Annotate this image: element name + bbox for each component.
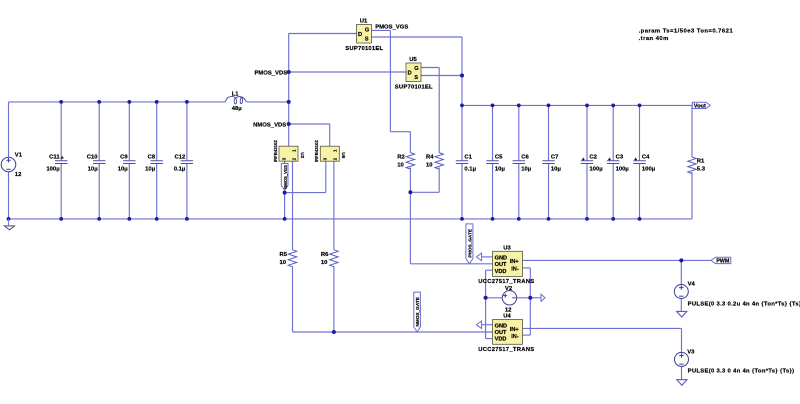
svg-text:R4: R4 [426, 154, 434, 160]
svg-text:C3: C3 [616, 155, 624, 161]
svg-text:+: + [634, 157, 637, 163]
node junction R2-R4 link [408, 190, 412, 194]
node junction IN- link [528, 296, 532, 300]
wire U1 drain lead [289, 33, 357, 35]
wire U1 source lead [372, 36, 463, 38]
node junctions on switch node x288.7 [287, 70, 291, 126]
voltage source V2 [502, 291, 516, 305]
transistor U2 body (IRFB4310Z block) [279, 146, 298, 161]
svg-text:IN+: IN+ [510, 327, 520, 333]
svg-text:100µ: 100µ [46, 166, 60, 172]
wire U4 IN+ to V3 [523, 328, 682, 352]
svg-text:IRFB4310Z: IRFB4310Z [314, 140, 319, 163]
svg-text:10µ: 10µ [118, 166, 129, 172]
svg-text:.param Ts=1/50e3 Ton=0.7621: .param Ts=1/50e3 Ton=0.7621 [639, 29, 734, 35]
svg-text:C9: C9 [120, 155, 128, 161]
node junction PWM [679, 258, 683, 262]
wire R1 top lead [691, 105, 693, 157]
transistor U6 body (IRFB4310Z block) [320, 146, 339, 161]
wire NMOS gate bus to U4 OUT [293, 331, 493, 333]
wire R4 top lead to U5 gate [438, 68, 440, 153]
svg-text:S: S [414, 75, 418, 81]
wire U3 OUT lead [410, 263, 492, 265]
svg-text:100µ: 100µ [642, 166, 656, 172]
svg-text:U5: U5 [409, 57, 417, 63]
node flag PWM [711, 257, 731, 263]
svg-text:R5: R5 [280, 252, 288, 258]
node junctions on ground bus [7, 217, 642, 221]
node junctions PMOS source column x462 [460, 74, 464, 108]
svg-text:OUT: OUT [495, 262, 507, 268]
wire gate jog to R2 [390, 131, 410, 133]
node junction source link [283, 191, 287, 195]
svg-text:NMOS_GATE: NMOS_GATE [415, 297, 420, 326]
svg-text:U2: U2 [299, 152, 305, 158]
svg-text:U6: U6 [340, 152, 346, 158]
node junction R6 gate bus [332, 330, 336, 334]
svg-text:SUP70101EL: SUP70101EL [345, 46, 383, 52]
wire C4 column [639, 105, 641, 218]
capacitor C4 (polarized) [633, 161, 645, 164]
svg-text:10µ: 10µ [88, 166, 99, 172]
wire R2 top lead [409, 132, 411, 153]
svg-text:C10: C10 [87, 155, 99, 161]
svg-text:PMOS_VGS: PMOS_VGS [375, 25, 408, 31]
wire U3 IN+ to PWM [523, 259, 712, 261]
wire V4 bottom lead [680, 298, 682, 311]
resistor R1 [688, 157, 696, 173]
wire C8 column [156, 102, 158, 219]
svg-text:G: G [414, 66, 419, 72]
svg-text:+: + [608, 157, 611, 163]
wire V2 right lead [517, 297, 541, 299]
svg-text:C6: C6 [521, 155, 529, 161]
capacitor C12 [181, 161, 193, 164]
svg-text:PULSE(0 3.3 0 4n 4n {Ton*Ts} {: PULSE(0 3.3 0 4n 4n {Ton*Ts} {Ts}) [688, 369, 795, 375]
svg-text:NMOS_VDS: NMOS_VDS [253, 123, 286, 129]
svg-text:C7: C7 [551, 155, 559, 161]
wire U3 VDD lead [486, 269, 493, 271]
capacitor C9 [123, 161, 135, 164]
svg-text:VDD: VDD [495, 269, 507, 275]
wire U5 source lead [421, 75, 462, 77]
gate driver U4 body (UCC27517) [493, 320, 523, 345]
wire IN- link vertical x530.3 [529, 268, 531, 335]
svg-text:5.3: 5.3 [697, 167, 706, 173]
wire C5 column [492, 105, 494, 218]
svg-text:C5: C5 [495, 155, 503, 161]
capacitor C3 (polarized) [607, 161, 619, 164]
svg-text:10: 10 [426, 162, 433, 168]
wire U4 IN- lead [523, 334, 531, 336]
op-amp U5 body (SUP70101EL block) [406, 63, 421, 82]
wire C9 column [128, 102, 130, 219]
svg-text:R6: R6 [321, 252, 329, 258]
port arrow U3 GND [476, 253, 481, 261]
wire R2 bottom lead to U3 OUT row [409, 168, 411, 264]
svg-text:D: D [408, 71, 412, 77]
svg-text:V1: V1 [15, 152, 23, 158]
wire C10 column [98, 102, 100, 219]
svg-text:UCC27517_TRANS: UCC27517_TRANS [478, 279, 534, 285]
svg-text:S: S [365, 36, 369, 42]
svg-text:10: 10 [280, 260, 287, 266]
capacitor C5 [486, 161, 498, 164]
svg-text:0.1µ: 0.1µ [464, 166, 476, 172]
svg-text:100µ: 100µ [616, 166, 630, 172]
resistor R2 [406, 153, 414, 169]
wire U5 gate lead [421, 67, 439, 69]
svg-text:IN+: IN+ [510, 259, 520, 265]
wire V4 top lead [680, 260, 682, 284]
svg-text:U4: U4 [503, 314, 511, 320]
svg-text:G: G [365, 28, 370, 34]
wire U3 GND lead [482, 256, 493, 258]
capacitor C1 [456, 161, 468, 164]
wire U4 GND lead [482, 324, 493, 326]
svg-text:R1: R1 [697, 158, 705, 164]
wire R2-R4 bottom link [410, 191, 439, 193]
port arrow U4 GND [476, 321, 481, 329]
svg-text:10µ: 10µ [145, 166, 156, 172]
wire Vout bus [462, 104, 692, 106]
voltage source V1 [1, 157, 16, 172]
wire C3 column [612, 105, 614, 218]
svg-text:V2: V2 [505, 286, 513, 292]
node flag NMOS_VGS [281, 164, 288, 191]
svg-text:IRFB4310Z: IRFB4310Z [273, 140, 278, 163]
wire U6 gate lead [333, 161, 335, 250]
svg-text:10: 10 [397, 162, 404, 168]
port arrow V2 out [541, 294, 545, 301]
ground main (bottom left) [4, 219, 14, 230]
capacitor C2 (polarized) [581, 161, 593, 164]
wire R6 bottom lead [333, 266, 335, 332]
wire C2 column [586, 105, 588, 218]
wire V1 top lead [8, 102, 10, 157]
node flag Vout [692, 102, 710, 108]
svg-text:V4: V4 [688, 281, 696, 287]
capacitor C6 [513, 161, 525, 164]
svg-text:PHOS_GATE: PHOS_GATE [468, 229, 473, 258]
wire U6 drain lead [329, 124, 331, 146]
svg-text:Vout: Vout [694, 104, 706, 110]
svg-text:V3: V3 [687, 349, 695, 355]
wire switch-node vertical x288.7 [288, 34, 290, 147]
svg-text:OUT: OUT [495, 330, 507, 336]
svg-text:U1: U1 [360, 19, 368, 25]
node flag NMOS_GATE [414, 292, 421, 332]
op-amp U1 body (SUP70101EL block) [357, 25, 372, 44]
svg-text:R2: R2 [397, 154, 405, 160]
svg-text:D: D [358, 32, 362, 38]
svg-text:UCC27517_TRANS: UCC27517_TRANS [478, 347, 534, 353]
wire C7 column [548, 105, 550, 218]
svg-text:GND: GND [495, 256, 507, 262]
inductor L1 [226, 97, 247, 104]
svg-text:PWM: PWM [716, 259, 730, 265]
ground V3 [677, 380, 687, 386]
svg-text:+: + [582, 157, 585, 163]
wire U2 gate lead [292, 161, 294, 250]
wire V3 bottom lead [681, 366, 683, 379]
wire R1 bottom lead [691, 172, 693, 219]
ground V4 [677, 311, 687, 317]
capacitor C8 [151, 161, 163, 164]
capacitor C7 [542, 161, 554, 164]
wire R5 bottom lead [292, 266, 294, 332]
wire source drop x462 to Vout bus [461, 37, 463, 105]
svg-text:100µ: 100µ [589, 166, 603, 172]
svg-text:C4: C4 [642, 155, 650, 161]
svg-text:C12: C12 [174, 155, 186, 161]
wire C11 column [60, 102, 62, 219]
svg-text:IN-: IN- [511, 266, 519, 272]
resistor R4 [435, 153, 443, 169]
voltage source V3 [675, 352, 689, 366]
wire U1 gate lead [372, 29, 391, 31]
resistor R6 [330, 250, 338, 267]
svg-text:C11: C11 [49, 155, 60, 161]
svg-text:48µ: 48µ [232, 106, 243, 112]
resistor R5 [288, 250, 296, 267]
svg-text:10µ: 10µ [521, 166, 532, 172]
capacitor C11 (polarized) [55, 161, 67, 164]
node junctions on top input bus [59, 100, 290, 104]
wire VDD link vertical x485.6 [485, 270, 487, 338]
svg-text:10µ: 10µ [551, 166, 562, 172]
wire ground bus bottom [9, 218, 693, 220]
node flag PHOS_GATE [466, 224, 473, 264]
svg-text:NMOS_VGS: NMOS_VGS [283, 165, 288, 189]
svg-text:.tran 40m: .tran 40m [639, 36, 669, 42]
svg-text:IN-: IN- [511, 334, 519, 340]
svg-text:C2: C2 [589, 155, 597, 161]
wire C1 column [461, 105, 463, 218]
svg-text:10µ: 10µ [495, 166, 506, 172]
wire U4 VDD lead [486, 338, 493, 340]
wire U2-U6 source link [285, 192, 326, 194]
wire U1 gate drop x390.4 [389, 30, 391, 131]
wire V2 left lead [486, 297, 503, 299]
wire C6 column [518, 105, 520, 218]
svg-text:+: + [61, 155, 64, 161]
svg-text:SUP70101EL: SUP70101EL [395, 84, 433, 90]
node junctions on Vout bus [491, 104, 642, 108]
svg-text:0.1µ: 0.1µ [174, 166, 186, 172]
wire U3 IN- lead [523, 267, 531, 269]
wire PMOS_VDS to U5 drain [289, 71, 406, 73]
wire V1 bottom lead [8, 172, 10, 219]
svg-text:C1: C1 [464, 155, 472, 161]
node junction VDD link [484, 296, 488, 300]
wire R4 bottom lead [438, 168, 440, 193]
voltage source V4 [674, 285, 688, 299]
svg-text:GND: GND [495, 323, 507, 329]
svg-text:PULSE(0 3.3 0.2u 4n 4n {Ton*Ts: PULSE(0 3.3 0.2u 4n 4n {Ton*Ts} {Ts}) [688, 302, 800, 308]
svg-text:U3: U3 [503, 246, 511, 252]
wire C12 column [186, 102, 188, 219]
gate driver U3 body (UCC27517) [493, 251, 523, 276]
svg-text:PMOS_VDS: PMOS_VDS [254, 71, 287, 77]
svg-text:10: 10 [321, 260, 328, 266]
wire U2 source lead to ground bus [284, 161, 286, 219]
wire L1 to node SW [247, 101, 289, 103]
wire top input bus [9, 101, 226, 103]
svg-text:12: 12 [15, 172, 22, 178]
svg-text:VDD: VDD [495, 337, 507, 343]
svg-text:L1: L1 [232, 91, 240, 97]
svg-text:C8: C8 [148, 155, 156, 161]
wire NMOS_VDS to U6 drain [289, 123, 330, 125]
wire U6 source lead [325, 161, 327, 192]
svg-text:12: 12 [505, 307, 512, 313]
capacitor C10 [93, 161, 105, 164]
